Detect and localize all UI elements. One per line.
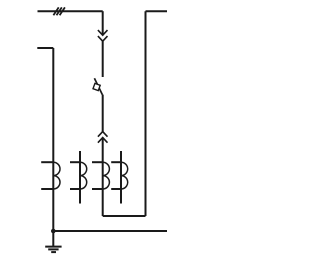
wire: right vertical return riser <box>145 11 147 216</box>
winding W3 (on main vertical) <box>92 162 109 189</box>
winding W1 (coil on left branch) <box>41 162 60 189</box>
switch Q1 (blade with square) <box>93 78 102 95</box>
wire: ground stem <box>52 231 54 246</box>
wire: conductor of winding W4 <box>120 151 122 204</box>
three-phase slash marks <box>53 7 65 15</box>
winding W2 <box>70 162 87 189</box>
wire: left branch horizontal stub <box>37 47 53 49</box>
wire: bottom ground bus <box>53 230 167 232</box>
wire: vertical between switch and lower drawout <box>102 95 104 132</box>
drawout contact (upper, chevrons pointing down) <box>98 30 108 41</box>
wire: main vertical drop from top feeder <box>102 11 104 35</box>
wire: conductor of winding W2 <box>79 151 81 204</box>
wire: top right outgoing stub <box>146 10 168 12</box>
ground <box>45 247 61 253</box>
node: junction dot on ground bus <box>51 229 56 234</box>
wire: vertical between upper drawout and switch <box>102 41 104 77</box>
wire: bottom horizontal of return loop <box>103 215 146 217</box>
drawout contact (lower, chevrons pointing up) <box>98 132 108 143</box>
winding W4 <box>111 162 128 189</box>
wire: incoming top horizontal feeder <box>38 10 103 12</box>
wire: left branch vertical conductor <box>52 48 54 231</box>
wire: main vertical through CT down to bottom turn <box>102 138 104 216</box>
